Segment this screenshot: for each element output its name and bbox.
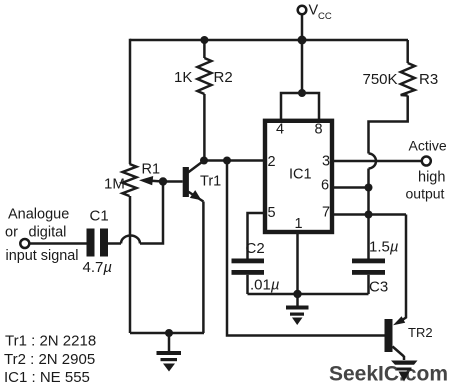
wire hop to pin6 node bbox=[367, 169, 370, 260]
transistor TR2 bbox=[385, 215, 407, 357]
node pin7 junction bbox=[365, 211, 373, 219]
wire input to C1 bbox=[30, 242, 87, 245]
svg-text:R3: R3 bbox=[419, 71, 438, 88]
wire left vertical lower (R1 to ground line) bbox=[129, 196, 132, 333]
node pin6 junction bbox=[365, 184, 373, 192]
node pin1-ground bbox=[293, 290, 301, 298]
svg-text:750K: 750K bbox=[363, 71, 398, 88]
node pin2-branch bbox=[223, 157, 231, 165]
node base junction bbox=[159, 177, 167, 185]
ground (TR2) bbox=[391, 356, 418, 382]
svg-text:Tr1 : 2N 2218: Tr1 : 2N 2218 bbox=[5, 333, 96, 350]
svg-text:IC1 : NE 555: IC1 : NE 555 bbox=[4, 369, 90, 386]
node R2-collector-pin2 bbox=[200, 157, 208, 165]
capacitor C1 bbox=[87, 229, 109, 257]
IC IC1 NE555 bbox=[265, 121, 332, 232]
wire C1 to hop bbox=[108, 242, 121, 245]
svg-text:SeekIC.com: SeekIC.com bbox=[329, 363, 448, 386]
svg-text:1: 1 bbox=[295, 216, 303, 232]
capacitor C3 bbox=[352, 259, 385, 275]
svg-text:C1: C1 bbox=[90, 208, 109, 225]
svg-text:V: V bbox=[309, 3, 319, 19]
node rail-R2 bbox=[200, 36, 208, 44]
svg-text:5: 5 bbox=[268, 205, 276, 221]
svg-text:.01µ: .01µ bbox=[250, 277, 280, 294]
svg-text:4: 4 bbox=[276, 122, 284, 138]
wire pin5 bbox=[248, 213, 266, 259]
wire Vcc to bracket bbox=[301, 40, 304, 93]
svg-text:2: 2 bbox=[268, 154, 276, 170]
terminal output bbox=[422, 157, 431, 166]
ground (Tr1 emitter) bbox=[157, 333, 182, 372]
wire ground line mid bbox=[248, 293, 369, 296]
wire pin7 bbox=[333, 213, 369, 216]
transistor Tr1 bbox=[163, 161, 204, 202]
wire R3 bottom to hop line bbox=[369, 96, 408, 154]
wire pin4-8 bracket bbox=[281, 93, 319, 119]
svg-text:Tr1: Tr1 bbox=[200, 174, 221, 190]
label Vcc bbox=[309, 3, 332, 23]
svg-text:C2: C2 bbox=[246, 240, 265, 257]
terminal Vcc bbox=[298, 6, 307, 40]
wire left vertical upper (rail to R1) bbox=[129, 39, 132, 164]
svg-text:Analogue: Analogue bbox=[8, 207, 69, 223]
svg-text:1.5µ: 1.5µ bbox=[369, 239, 399, 256]
terminal input bbox=[20, 239, 29, 248]
wire hop over pin3 bbox=[369, 154, 377, 169]
wire pin3 to output bbox=[333, 160, 422, 163]
svg-text:high: high bbox=[418, 170, 445, 186]
wire C3 to ground line bbox=[367, 275, 370, 294]
svg-text:input signal: input signal bbox=[6, 248, 79, 264]
svg-text:1K: 1K bbox=[174, 69, 192, 86]
wire C2 to ground line bbox=[246, 275, 249, 294]
wire Tr1 emitter down bbox=[202, 202, 205, 334]
node bracket bbox=[298, 89, 306, 97]
resistor R2 bbox=[197, 40, 211, 161]
wire pin1 down bbox=[296, 231, 299, 294]
svg-text:1M: 1M bbox=[104, 176, 125, 193]
svg-text:output: output bbox=[406, 186, 445, 202]
wire pin2 bbox=[204, 159, 265, 162]
wire top rail bbox=[130, 39, 408, 42]
svg-text:6: 6 bbox=[321, 178, 329, 194]
svg-text:R2: R2 bbox=[214, 69, 233, 86]
svg-text:7: 7 bbox=[322, 205, 330, 221]
svg-text:8: 8 bbox=[315, 122, 323, 138]
resistor R1 bbox=[123, 164, 137, 196]
wire bottom-left ground line bbox=[130, 332, 204, 335]
wire pin6 bbox=[333, 186, 369, 189]
wiper arrow R1 bbox=[139, 176, 163, 185]
wire hop to riser bbox=[140, 182, 163, 244]
svg-text:CC: CC bbox=[318, 11, 332, 22]
node rail-Vcc bbox=[298, 36, 307, 45]
svg-text:4.7µ: 4.7µ bbox=[83, 259, 113, 276]
svg-text:Tr2 : 2N 2905: Tr2 : 2N 2905 bbox=[4, 351, 95, 368]
svg-text:IC1: IC1 bbox=[289, 167, 312, 183]
svg-text:ordigital: ordigital bbox=[5, 225, 66, 241]
resistor R3 bbox=[401, 40, 415, 96]
wire pin7 node to TR2 branch bbox=[369, 213, 407, 216]
ground (pin 1) bbox=[286, 294, 309, 325]
svg-text:Active: Active bbox=[409, 138, 447, 154]
capacitor C2 bbox=[232, 259, 265, 275]
wire branch down to TR2 base bbox=[227, 161, 385, 336]
svg-text:TR2: TR2 bbox=[408, 325, 433, 340]
svg-text:3: 3 bbox=[322, 153, 330, 169]
node emitter-ground junction bbox=[165, 329, 173, 337]
svg-text:R1: R1 bbox=[142, 162, 161, 178]
svg-text:C3: C3 bbox=[369, 279, 388, 296]
wire hop over R1 line bbox=[121, 236, 140, 244]
